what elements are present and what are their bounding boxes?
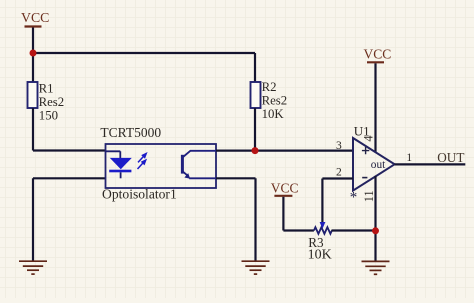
wire op-amp pin 4 supply [374, 63, 376, 152]
svg-text:150: 150 [39, 108, 58, 122]
svg-text:VCC: VCC [271, 180, 299, 195]
svg-text:4: 4 [362, 135, 376, 141]
power port VCC (above op-amp) [364, 46, 392, 62]
svg-text:R2: R2 [262, 80, 277, 94]
svg-text:R1: R1 [39, 82, 54, 96]
svg-text:10K: 10K [262, 107, 285, 121]
wire down to middle ground [254, 178, 256, 260]
wire junction to right ground [374, 231, 376, 261]
junction dot at VCC rail [30, 50, 37, 57]
svg-text:*: * [350, 190, 358, 206]
wire collector to op-amp pin 3 [216, 150, 353, 152]
svg-text:OUT: OUT [437, 150, 464, 165]
ground (right) [362, 261, 390, 274]
svg-text:Res2: Res2 [262, 94, 288, 108]
resistor R2 [251, 80, 288, 121]
wire op-amp pin 2 [322, 177, 353, 179]
svg-text:Res2: Res2 [39, 95, 65, 109]
wire down to left ground [32, 178, 34, 260]
wire R2 bottom lead [254, 108, 256, 151]
svg-text:Optoisolator1: Optoisolator1 [102, 187, 177, 202]
svg-text:10K: 10K [308, 248, 332, 263]
ground (middle) [242, 261, 270, 274]
svg-text:TCRT5000: TCRT5000 [100, 125, 161, 140]
wire R3 right lead [332, 229, 376, 231]
wire to optocoupler anode [33, 149, 106, 151]
svg-text:11: 11 [362, 190, 376, 202]
wire op-amp output [395, 163, 466, 165]
svg-text:VCC: VCC [364, 46, 392, 61]
wire optocoupler cathode to left [33, 177, 106, 179]
power port VCC (bottom middle) [271, 180, 299, 230]
potentiometer R3 [308, 222, 332, 263]
op-amp U1 [350, 124, 395, 206]
svg-text:1: 1 [406, 152, 412, 164]
junction dot at R2 / collector [252, 147, 259, 154]
wire R1 bottom lead [32, 108, 34, 151]
ground (left) [19, 261, 47, 274]
svg-text:3: 3 [336, 140, 342, 152]
junction dot at R3 / supply [372, 227, 379, 234]
svg-text:2: 2 [336, 166, 342, 178]
wire op-amp pin 11 down [374, 176, 376, 231]
LED inside optoisolator [106, 151, 132, 178]
wire VCC to R3 left [283, 229, 314, 231]
wire pin2 down to R3 wiper [321, 179, 323, 223]
resistor R1 [28, 82, 65, 123]
power port VCC (top left) [21, 10, 49, 53]
optoisolator U TCRT5000 body [100, 125, 216, 201]
LED emission arrows [138, 154, 147, 170]
svg-text:out: out [371, 159, 386, 171]
phototransistor inside optoisolator [182, 151, 216, 179]
wire emitter to ground column [216, 177, 256, 179]
wire R1 top lead [32, 53, 34, 82]
svg-text:VCC: VCC [21, 10, 49, 25]
wire down to R2 top [254, 53, 256, 82]
wire VCC rail to R2 [33, 52, 255, 54]
